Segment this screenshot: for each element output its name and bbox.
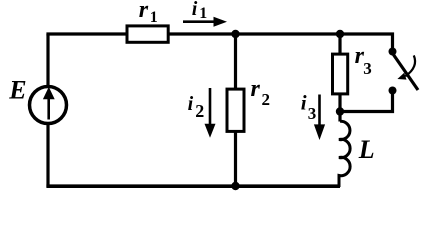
inductor L bbox=[339, 121, 350, 187]
node dot top r3 junction bbox=[336, 30, 344, 38]
voltage source E bbox=[30, 87, 67, 124]
current arrow i1 bbox=[183, 17, 227, 27]
label i3 bbox=[301, 91, 317, 123]
svg-text:i: i bbox=[301, 91, 307, 115]
svg-text:i: i bbox=[188, 93, 194, 115]
wire r2 branch upper bbox=[234, 34, 237, 89]
svg-text:E: E bbox=[8, 76, 26, 105]
resistor r2 bbox=[227, 89, 244, 131]
wire r3 branch upper bbox=[338, 34, 341, 54]
svg-text:r: r bbox=[251, 76, 261, 102]
current arrow i3 bbox=[314, 95, 325, 141]
resistor r3 bbox=[333, 54, 348, 94]
svg-text:3: 3 bbox=[308, 104, 317, 123]
switch S closing arrow bbox=[397, 55, 415, 79]
resistor r1 bbox=[127, 26, 168, 42]
switch S contact top bbox=[389, 48, 397, 56]
node dot top r2 junction bbox=[231, 30, 239, 38]
label r2 bbox=[251, 76, 271, 109]
label i2 bbox=[188, 93, 205, 121]
switch S blade bbox=[393, 54, 418, 90]
svg-text:1: 1 bbox=[150, 9, 158, 26]
node dot bottom r2 junction bbox=[231, 182, 239, 190]
svg-text:2: 2 bbox=[195, 101, 204, 121]
label i1 bbox=[192, 0, 207, 22]
svg-text:i: i bbox=[192, 0, 198, 20]
switch S contact bottom bbox=[389, 87, 397, 95]
svg-text:2: 2 bbox=[262, 90, 271, 109]
wire bottom bbox=[46, 184, 340, 188]
node dot switch return junction bbox=[336, 107, 344, 115]
label r3 bbox=[355, 43, 372, 78]
wire top left bbox=[46, 32, 127, 35]
svg-text:1: 1 bbox=[199, 5, 207, 22]
svg-text:L: L bbox=[358, 135, 375, 164]
svg-text:r: r bbox=[139, 0, 149, 23]
wire left branch bbox=[46, 34, 49, 187]
wire switch return bbox=[340, 91, 393, 112]
label r1 bbox=[139, 0, 158, 26]
wire r3 to inductor bbox=[338, 94, 341, 122]
wire r2 branch lower bbox=[234, 131, 237, 187]
svg-text:3: 3 bbox=[363, 59, 372, 78]
current arrow i2 bbox=[205, 88, 216, 138]
wire top middle bbox=[168, 34, 393, 52]
